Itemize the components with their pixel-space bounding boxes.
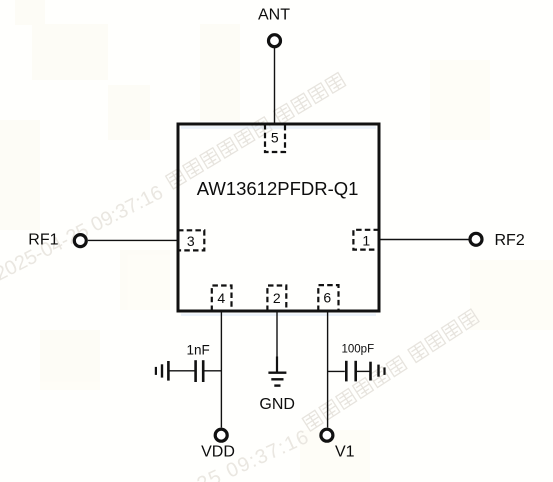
ground (right, rotated earth) xyxy=(371,362,385,381)
wire C1 to left ground xyxy=(168,370,194,372)
pin 3 dashed pad xyxy=(178,230,204,250)
svg-text:VDD: VDD xyxy=(201,444,235,461)
svg-text:100pF: 100pF xyxy=(342,343,375,355)
wire pin4-net to C1 xyxy=(204,370,221,372)
watermark line B CJK run xyxy=(302,309,479,431)
terminal V1 xyxy=(321,429,333,441)
svg-text:RF2: RF2 xyxy=(495,232,525,249)
terminal RF1 xyxy=(74,235,86,247)
terminal RF2 xyxy=(470,233,482,245)
svg-text:GND: GND xyxy=(259,396,295,413)
svg-text:3: 3 xyxy=(187,233,195,249)
ground (earth below pin 2) xyxy=(268,373,286,386)
pin 2 dashed pad xyxy=(267,286,286,312)
wire ANT to pin 5 xyxy=(274,48,276,123)
svg-text:AW13612PFDR-Q1: AW13612PFDR-Q1 xyxy=(197,178,359,199)
svg-text:4: 4 xyxy=(217,290,225,306)
wire C2 to right ground xyxy=(356,370,370,372)
svg-text:1: 1 xyxy=(362,233,370,249)
watermark line B date-time run xyxy=(111,426,313,482)
svg-text:5: 5 xyxy=(271,130,279,146)
svg-text:ANT: ANT xyxy=(258,7,290,24)
jpeg ghost band below bottom edge xyxy=(181,313,376,316)
terminal VDD xyxy=(215,429,227,441)
pin 5 dashed pad xyxy=(265,124,285,152)
wire RF1 to pin 3 xyxy=(88,239,177,241)
svg-text:2: 2 xyxy=(273,290,281,306)
wire pin 2 to ground xyxy=(276,313,278,373)
wire pin 4 to VDD xyxy=(220,313,222,428)
svg-text:V1: V1 xyxy=(335,444,355,461)
svg-text:RF1: RF1 xyxy=(28,232,58,249)
watermark line A CJK run xyxy=(166,73,346,189)
jpeg ghost band below top edge xyxy=(181,126,376,129)
wire pin 1 to RF2 xyxy=(380,239,469,241)
capacitor C2 100pF plates xyxy=(345,361,348,382)
svg-text:6: 6 xyxy=(323,290,331,306)
capacitor C1 1nF plates xyxy=(194,360,197,382)
ground (left, rotated earth) xyxy=(156,361,169,381)
terminal ANT xyxy=(269,35,281,47)
pin 6 dashed pad xyxy=(318,285,338,311)
watermark line A date-time run xyxy=(0,182,167,286)
wire pin 6 to V1 xyxy=(327,313,329,428)
wire pin6-net to C2 xyxy=(328,370,345,372)
IC U1 AW13612PFDR-Q1 body xyxy=(178,124,379,311)
pin 1 dashed pad xyxy=(353,230,379,250)
pin 4 dashed pad xyxy=(212,286,232,312)
svg-text:1nF: 1nF xyxy=(187,343,210,358)
